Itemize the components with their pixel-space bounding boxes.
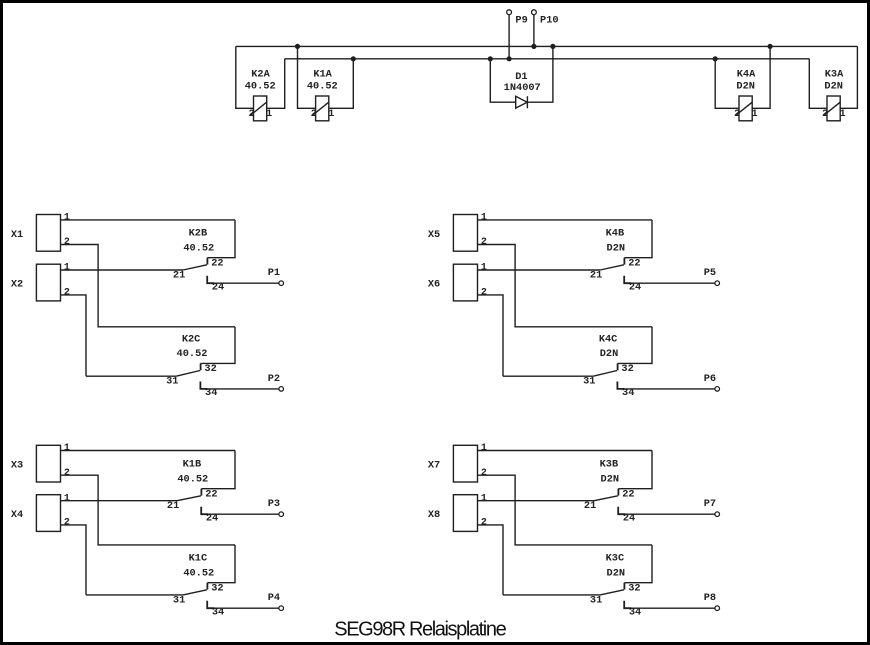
wire pin 24 of K3C to pad xyxy=(629,607,715,609)
relay contact K4B common wire xyxy=(478,269,601,271)
relay contact K2B wire from pin 22 terminal xyxy=(207,220,235,258)
relay contact K3B terminal 24 xyxy=(618,507,625,514)
svg-text:2: 2 xyxy=(64,288,70,299)
wire X1 pin1 to K2B pin22 xyxy=(61,219,236,221)
svg-text:K3B: K3B xyxy=(600,459,619,471)
pad P5 xyxy=(715,281,720,286)
junction P10 on top bus xyxy=(531,44,536,49)
wire pin 24 of K2B to pad xyxy=(212,282,279,284)
svg-text:2: 2 xyxy=(311,109,317,120)
svg-text:K4B: K4B xyxy=(606,228,625,240)
wire X7 pin2 to K3C pin32 xyxy=(478,475,653,545)
relay contact K1B terminal 22 xyxy=(200,489,202,496)
svg-text:32: 32 xyxy=(628,583,640,595)
svg-text:22: 22 xyxy=(628,258,640,270)
connector X6 xyxy=(453,264,477,301)
relay contact K1C terminal 22 xyxy=(206,583,208,590)
relay contact K2C common wire xyxy=(86,375,176,377)
svg-text:P7: P7 xyxy=(704,498,716,510)
relay contact K4B blade xyxy=(600,265,624,270)
relay contact K4C wire from pin 22 terminal xyxy=(618,327,652,364)
wire X8 pin2 to K3C common xyxy=(478,525,504,595)
relay contact K3C wire from pin 22 terminal xyxy=(624,545,652,583)
svg-text:31: 31 xyxy=(166,376,178,388)
svg-text:D2N: D2N xyxy=(600,348,619,360)
junction K4A right on top bus xyxy=(768,44,773,49)
svg-text:31: 31 xyxy=(583,376,595,388)
wire pin 24 of K4B to pad xyxy=(629,282,715,284)
pad P4 xyxy=(279,606,284,611)
wire X2 pin2 to K2C common xyxy=(61,295,87,376)
relay coil K1A right wire xyxy=(329,59,354,109)
relay contact K2B terminal 24 xyxy=(207,276,214,283)
junction K4A left on second bus xyxy=(713,56,718,61)
svg-text:1: 1 xyxy=(752,109,758,120)
svg-text:1: 1 xyxy=(64,213,70,224)
svg-text:SEG98R Relaisplatine: SEG98R Relaisplatine xyxy=(334,618,506,640)
junction P9 on second bus xyxy=(507,56,512,61)
svg-text:1: 1 xyxy=(64,263,70,274)
svg-text:2: 2 xyxy=(64,518,70,529)
svg-text:31: 31 xyxy=(590,594,602,606)
diode D1 right wire xyxy=(527,46,553,102)
relay contact K3C blade xyxy=(600,590,624,595)
svg-text:P1: P1 xyxy=(268,267,280,279)
svg-text:32: 32 xyxy=(211,583,223,595)
relay contact K2C terminal 24 xyxy=(200,382,207,389)
connector X8 xyxy=(453,495,477,532)
relay coil K1A body xyxy=(316,96,329,121)
wire X3 pin1 to K1B pin22 xyxy=(61,450,236,452)
svg-text:2: 2 xyxy=(822,109,828,120)
svg-text:2: 2 xyxy=(249,109,255,120)
svg-text:21: 21 xyxy=(173,270,185,282)
connector X2 xyxy=(36,264,60,301)
wire second bus xyxy=(285,58,810,60)
svg-text:40.52: 40.52 xyxy=(177,348,208,360)
pad P6 xyxy=(715,387,720,392)
svg-text:K1C: K1C xyxy=(189,553,208,565)
diode D1 symbol xyxy=(516,96,528,108)
relay contact K2B terminal 22 xyxy=(206,258,208,265)
relay contact K1C terminal 24 xyxy=(207,601,214,608)
pad P2 xyxy=(279,387,284,392)
relay coil K2A left wire xyxy=(236,46,254,108)
svg-text:K3A: K3A xyxy=(825,68,844,80)
relay contact K1C blade xyxy=(183,590,207,595)
svg-text:P2: P2 xyxy=(268,373,280,385)
svg-text:X6: X6 xyxy=(428,278,440,290)
svg-text:D2N: D2N xyxy=(601,473,620,485)
svg-text:40.52: 40.52 xyxy=(177,473,208,485)
svg-text:X5: X5 xyxy=(428,229,440,241)
pad P1 xyxy=(279,281,284,286)
svg-text:P10: P10 xyxy=(540,14,559,26)
relay contact K1B blade xyxy=(177,496,201,501)
svg-text:40.52: 40.52 xyxy=(183,242,214,254)
svg-text:1: 1 xyxy=(481,443,487,454)
svg-text:K1B: K1B xyxy=(183,459,202,471)
svg-text:2: 2 xyxy=(64,237,70,248)
svg-text:K4A: K4A xyxy=(737,68,756,80)
svg-text:21: 21 xyxy=(584,500,596,512)
relay contact K3C terminal 22 xyxy=(623,583,625,590)
relay coil K2A right wire xyxy=(267,59,285,109)
svg-text:21: 21 xyxy=(590,270,602,282)
svg-text:22: 22 xyxy=(205,489,217,501)
svg-text:P4: P4 xyxy=(268,592,280,604)
svg-text:22: 22 xyxy=(211,258,223,270)
relay contact K2C terminal 22 xyxy=(200,363,202,370)
diode D1 left wire xyxy=(490,59,515,102)
svg-text:K4C: K4C xyxy=(599,333,618,345)
relay contact K4B terminal 22 xyxy=(623,258,625,265)
wire X6 pin2 to K4C common xyxy=(478,295,504,376)
relay contact K1C wire from pin 22 terminal xyxy=(207,545,235,583)
svg-text:24: 24 xyxy=(629,281,641,293)
relay contact K2B blade xyxy=(183,265,207,270)
relay contact K2C wire from pin 22 terminal xyxy=(201,327,235,364)
relay contact K2C blade xyxy=(176,371,200,377)
wire X5 pin2 to K4C pin32 xyxy=(478,245,653,327)
junction D1 right on top bus xyxy=(550,44,555,49)
svg-text:2: 2 xyxy=(734,109,740,120)
relay coil K2A body xyxy=(254,96,267,121)
relay coil K3A body xyxy=(827,96,840,121)
svg-text:P9: P9 xyxy=(515,14,527,26)
relay contact K3C common wire xyxy=(503,594,600,596)
wire X4 pin2 to K1C common xyxy=(61,525,87,595)
wire X5 pin1 to K4B pin22 xyxy=(478,219,653,221)
svg-text:22: 22 xyxy=(622,489,634,501)
svg-text:1: 1 xyxy=(481,263,487,274)
relay contact K3C terminal 24 xyxy=(624,601,631,608)
wire X1 pin2 to K2C pin32 xyxy=(61,245,236,327)
relay contact K3B blade xyxy=(594,496,618,501)
wire P9 to second bus xyxy=(508,15,510,59)
svg-text:K1A: K1A xyxy=(313,68,332,80)
svg-text:1: 1 xyxy=(266,109,272,120)
relay contact K4C common wire xyxy=(503,375,593,377)
relay contact K1B wire from pin 22 terminal xyxy=(201,451,235,489)
svg-text:40.52: 40.52 xyxy=(307,81,338,93)
junction K1A left on top bus xyxy=(295,44,300,49)
svg-text:31: 31 xyxy=(173,594,185,606)
svg-text:X8: X8 xyxy=(428,509,440,521)
svg-text:X1: X1 xyxy=(11,229,23,241)
wire pin 24 of K3B to pad xyxy=(623,513,715,515)
relay contact K4C terminal 24 xyxy=(617,382,624,389)
wire top bus xyxy=(236,45,858,47)
pad P7 xyxy=(715,512,720,517)
svg-text:D2N: D2N xyxy=(607,567,626,579)
svg-text:1N4007: 1N4007 xyxy=(504,82,541,94)
relay coil K4A right wire xyxy=(752,46,770,108)
svg-text:2: 2 xyxy=(481,518,487,529)
svg-text:2: 2 xyxy=(64,468,70,479)
svg-text:X4: X4 xyxy=(11,509,23,521)
svg-text:2: 2 xyxy=(481,237,487,248)
svg-text:1: 1 xyxy=(481,213,487,224)
svg-text:D2N: D2N xyxy=(824,81,843,93)
svg-text:P3: P3 xyxy=(268,498,280,510)
wire X3 pin2 to K1C pin32 xyxy=(61,475,236,545)
svg-text:X2: X2 xyxy=(11,278,23,290)
svg-text:X7: X7 xyxy=(428,460,440,472)
svg-text:1: 1 xyxy=(328,109,334,120)
wire X7 pin1 to K3B pin22 xyxy=(478,450,653,452)
relay contact K1B terminal 24 xyxy=(201,507,208,514)
relay contact K3B common wire xyxy=(478,500,595,502)
connector X5 xyxy=(453,215,477,252)
pad P9 xyxy=(507,10,512,15)
svg-text:24: 24 xyxy=(623,512,635,524)
svg-text:34: 34 xyxy=(212,606,224,618)
junction D1 left on second bus xyxy=(488,56,493,61)
pad P3 xyxy=(279,512,284,517)
svg-text:K2A: K2A xyxy=(251,68,270,80)
relay contact K4B terminal 24 xyxy=(624,276,631,283)
svg-text:2: 2 xyxy=(481,288,487,299)
svg-text:P6: P6 xyxy=(704,373,716,385)
svg-text:K2B: K2B xyxy=(189,228,208,240)
wire pin 24 of K4C to pad xyxy=(622,388,715,390)
svg-text:40.52: 40.52 xyxy=(183,567,214,579)
svg-text:32: 32 xyxy=(204,363,216,375)
connector X7 xyxy=(453,445,477,482)
relay coil K3A left wire xyxy=(809,59,827,109)
svg-text:P8: P8 xyxy=(704,592,716,604)
svg-text:34: 34 xyxy=(622,387,634,399)
svg-text:21: 21 xyxy=(167,500,179,512)
relay contact K4C blade xyxy=(593,371,617,377)
connector X3 xyxy=(36,445,60,482)
svg-text:24: 24 xyxy=(212,281,224,293)
svg-text:1: 1 xyxy=(64,443,70,454)
svg-text:1: 1 xyxy=(481,493,487,504)
svg-text:X3: X3 xyxy=(11,460,23,472)
wire pin 24 of K1B to pad xyxy=(206,513,279,515)
svg-text:D2N: D2N xyxy=(607,242,626,254)
relay contact K4B wire from pin 22 terminal xyxy=(624,220,652,258)
svg-text:32: 32 xyxy=(621,363,633,375)
svg-text:2: 2 xyxy=(481,468,487,479)
relay contact K1B common wire xyxy=(61,500,178,502)
wire pin 24 of K2C to pad xyxy=(205,388,279,390)
svg-text:34: 34 xyxy=(629,606,641,618)
svg-text:34: 34 xyxy=(205,387,217,399)
relay contact K2B common wire xyxy=(61,269,184,271)
svg-text:40.52: 40.52 xyxy=(245,81,276,93)
relay contact K1C common wire xyxy=(86,594,183,596)
svg-text:K3C: K3C xyxy=(606,553,625,565)
relay contact K3B terminal 22 xyxy=(617,489,619,496)
pad P10 xyxy=(532,10,537,15)
wire pin 24 of K1C to pad xyxy=(212,607,279,609)
connector X1 xyxy=(36,215,60,252)
wire P10 to top bus xyxy=(533,15,535,47)
relay coil K4A body xyxy=(739,96,752,121)
pad P8 xyxy=(715,606,720,611)
relay coil K3A right wire xyxy=(840,46,857,108)
svg-text:1: 1 xyxy=(840,109,846,120)
relay contact K3B wire from pin 22 terminal xyxy=(618,451,652,489)
connector X4 xyxy=(36,495,60,532)
svg-text:24: 24 xyxy=(206,512,218,524)
junction K1A right on second bus xyxy=(351,56,356,61)
relay coil K1A left wire xyxy=(298,46,316,108)
relay contact K4C terminal 22 xyxy=(617,363,619,370)
svg-text:K2C: K2C xyxy=(182,333,201,345)
relay coil K4A left wire xyxy=(715,59,739,109)
svg-text:P5: P5 xyxy=(704,267,716,279)
svg-text:1: 1 xyxy=(64,493,70,504)
svg-text:D2N: D2N xyxy=(736,81,755,93)
